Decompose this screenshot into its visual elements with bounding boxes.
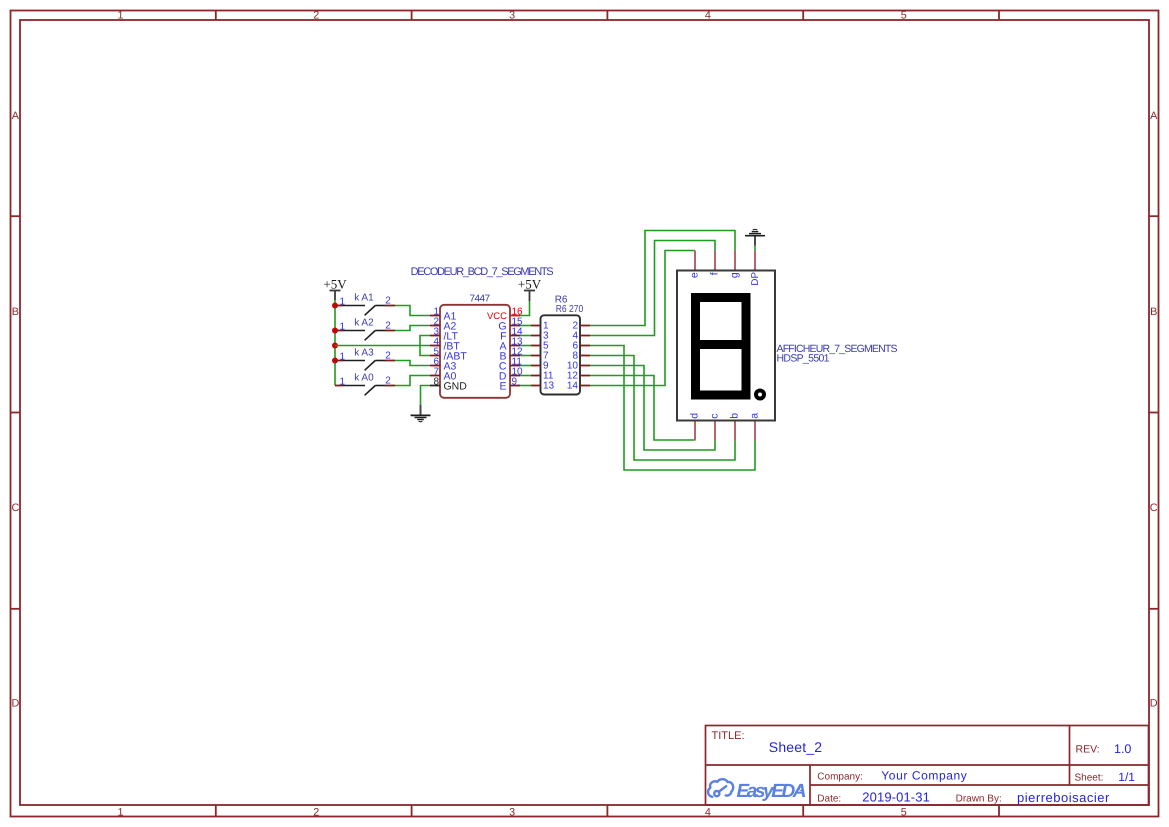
svg-text:A: A (1150, 110, 1158, 122)
wire rail to pin4 (335, 345, 430, 347)
svg-text:1.0: 1.0 (1114, 742, 1131, 756)
svg-text:5: 5 (901, 10, 907, 22)
svg-text:Your Company: Your Company (881, 768, 967, 782)
wire GND pin8 (421, 386, 431, 406)
7447 left pin stubs (430, 316, 440, 386)
svg-text:8: 8 (433, 376, 439, 387)
wire k A3 to pin6 (395, 361, 430, 366)
svg-text:EasyEDA: EasyEDA (737, 781, 807, 802)
svg-text:Date:: Date: (817, 794, 841, 805)
switch k A3 (335, 348, 395, 371)
svg-text:2: 2 (385, 375, 391, 386)
R6 pin numbers (543, 321, 555, 392)
R6 left pin stubs (531, 326, 541, 386)
svg-text:GND: GND (444, 381, 468, 393)
svg-text:DP: DP (750, 272, 761, 286)
svg-text:Sheet_2: Sheet_2 (769, 739, 823, 755)
svg-text:+5V: +5V (518, 277, 542, 292)
TITLEBLOCK (706, 726, 1149, 806)
svg-text:1/1: 1/1 (1118, 770, 1135, 784)
svg-text:REV:: REV: (1076, 744, 1100, 756)
svg-text:1: 1 (340, 376, 346, 387)
junction (332, 303, 338, 309)
svg-text:2: 2 (313, 10, 319, 22)
7-segment display U2 HDSP_5501 AFFICHEUR_7_SEGMENTS (677, 251, 898, 441)
power +5V (right) (518, 277, 542, 302)
power +5V (left) (323, 277, 347, 301)
svg-text:2019-01-31: 2019-01-31 (862, 790, 930, 805)
svg-text:E: E (499, 381, 506, 393)
svg-text:B: B (1150, 306, 1157, 318)
svg-text:1: 1 (117, 807, 123, 819)
svg-text:D: D (11, 698, 19, 710)
display segments figure 8 (696, 298, 747, 396)
7447 pin numbers (433, 306, 439, 387)
switch k A2 (335, 318, 395, 341)
svg-text:3: 3 (509, 807, 515, 819)
svg-text:5: 5 (901, 807, 907, 819)
svg-text:2: 2 (385, 295, 391, 306)
svg-text:k A0: k A0 (354, 373, 374, 384)
svg-text:a: a (749, 413, 761, 419)
wire DP ground (754, 246, 756, 251)
svg-text:B: B (12, 306, 19, 318)
wire R6 pin14 to display e (590, 251, 695, 386)
svg-text:2: 2 (385, 350, 391, 361)
switch k A0 (335, 373, 395, 396)
svg-text:1: 1 (340, 321, 346, 332)
junction (332, 358, 338, 364)
wire +5V to VCC pin16 (520, 301, 530, 316)
7447 right pin stubs (510, 316, 520, 386)
svg-text:3: 3 (509, 10, 515, 22)
wire k A1 to pin1 (395, 306, 430, 316)
svg-text:7447: 7447 (470, 294, 491, 305)
LOGO (708, 779, 733, 797)
svg-text:Drawn By:: Drawn By: (956, 794, 1002, 805)
svg-text:HDSP_5501: HDSP_5501 (777, 353, 830, 365)
svg-text:4: 4 (705, 10, 711, 22)
wire R6 pin2 to display g (590, 231, 735, 326)
display pin stubs bottom (695, 420, 755, 441)
svg-text:k A2: k A2 (354, 318, 374, 329)
svg-text:C: C (11, 502, 19, 514)
IC U1 7447 DECODEUR_BCD_7_SEGMENTS (411, 266, 554, 398)
svg-text:13: 13 (543, 381, 555, 392)
svg-text:C: C (1150, 502, 1158, 514)
wire k A0 to pin7 (395, 376, 430, 386)
wire +5V rail (334, 300, 336, 386)
svg-text:d: d (689, 413, 701, 419)
svg-text:14: 14 (567, 381, 579, 392)
display decimal point (754, 389, 766, 401)
wire k A2 to pin2 (395, 326, 430, 331)
svg-text:2: 2 (385, 320, 391, 331)
svg-text:2: 2 (313, 807, 319, 819)
7447 pin names (444, 311, 468, 393)
svg-text:+5V: +5V (323, 277, 347, 292)
svg-text:Company:: Company: (817, 772, 863, 783)
svg-text:g: g (729, 272, 741, 278)
svg-text:1: 1 (340, 351, 346, 362)
svg-text:f: f (709, 272, 721, 275)
wire R6 pin10 to display c (590, 366, 715, 451)
wire R6 pin12 to display d (590, 376, 695, 441)
svg-text:k A3: k A3 (354, 348, 374, 359)
wire /LT to /ABT loop (420, 336, 430, 356)
svg-text:Sheet:: Sheet: (1075, 773, 1104, 784)
wire R6 pin8 to display b (590, 356, 735, 461)
svg-text:1: 1 (117, 10, 123, 22)
wire R6 pin6 to display a (590, 346, 755, 471)
switch k A1 (335, 293, 395, 316)
ground (DP, inverted) (745, 229, 765, 245)
svg-text:9: 9 (512, 376, 518, 387)
svg-text:1: 1 (340, 296, 346, 307)
junction (332, 343, 338, 349)
svg-text:R6 270: R6 270 (556, 304, 584, 315)
ground (below 7447) (411, 405, 431, 422)
svg-text:A: A (12, 110, 20, 122)
wire R6 pin4 to display f (590, 241, 715, 336)
svg-text:D: D (1150, 698, 1158, 710)
svg-text:TITLE:: TITLE: (712, 730, 745, 742)
svg-text:k A1: k A1 (354, 293, 374, 304)
resistor network R6 270 (531, 294, 590, 394)
junction (332, 328, 338, 334)
R6 right pin stubs (580, 326, 590, 386)
wires 7447 to R6 (520, 326, 531, 386)
svg-text:c: c (709, 413, 721, 418)
svg-text:pierreboisacier: pierreboisacier (1017, 790, 1110, 805)
svg-text:b: b (729, 413, 741, 419)
display pin names (689, 272, 761, 419)
svg-text:4: 4 (705, 807, 711, 819)
svg-text:e: e (689, 272, 701, 278)
display pin stubs top (695, 251, 755, 271)
